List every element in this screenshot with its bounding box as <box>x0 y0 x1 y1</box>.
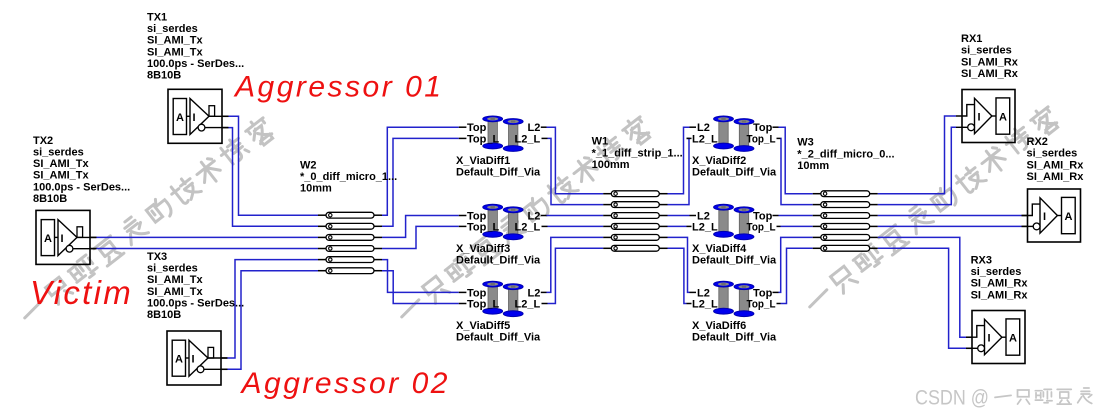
svg-text:TX1: TX1 <box>147 12 167 24</box>
svg-text:Aggressor 02: Aggressor 02 <box>240 367 450 400</box>
svg-text:*_1_diff_strip_1...: *_1_diff_strip_1... <box>592 147 683 159</box>
svg-text:Default_Diff_Via: Default_Diff_Via <box>692 166 777 178</box>
wire X_ViaDiff5 L2_L to W1 line6 <box>548 248 604 303</box>
wire W1 line5 to X_ViaDiff6 L2 <box>668 237 690 292</box>
wire X_ViaDiff6 Top to W3 line5 <box>779 237 813 292</box>
label X_ViaDiff3 value <box>456 243 541 267</box>
svg-text:A: A <box>176 112 184 124</box>
wire W2 line4 to X_ViaDiff3 Top_L <box>382 226 459 248</box>
transmitter TX1 <box>168 89 228 143</box>
label X_ViaDiff5 value <box>456 320 541 344</box>
wire X_ViaDiff1 L2 to W1 line1 <box>547 127 604 194</box>
svg-text:SI_AMI_Rx: SI_AMI_Rx <box>961 68 1019 80</box>
wire W3 line4 to RX2 in- <box>878 225 1028 227</box>
wire W1 line6 to X_ViaDiff6 L2_L <box>668 248 687 303</box>
transmission line W1 conductor 2 <box>603 202 667 208</box>
svg-text:si_serdes: si_serdes <box>961 45 1012 57</box>
svg-text:100mm: 100mm <box>592 159 630 171</box>
label X_ViaDiff2 value <box>692 155 777 179</box>
svg-text:SI_AMI_Tx: SI_AMI_Tx <box>33 170 90 182</box>
wire W2 line2 to X_ViaDiff1 Top_L <box>382 138 459 226</box>
svg-text:100.0ps - SerDes...: 100.0ps - SerDes... <box>147 58 244 70</box>
wire W1 line3 to X_ViaDiff4 L2 <box>668 215 690 217</box>
svg-text:TX2: TX2 <box>33 135 53 147</box>
svg-text:SI_AMI_Rx: SI_AMI_Rx <box>971 278 1029 290</box>
svg-text:Default_Diff_Via: Default_Diff_Via <box>692 332 777 344</box>
transmitter TX2 <box>36 210 96 264</box>
transmission line W1 conductor 1 <box>603 191 667 197</box>
svg-text:8B10B: 8B10B <box>33 193 67 205</box>
label X_ViaDiff1 value <box>456 155 541 179</box>
wire X_ViaDiff2 Top_L to W3 line2 <box>781 138 813 204</box>
svg-text:X_ViaDiff4: X_ViaDiff4 <box>692 243 747 255</box>
transmission line W1 conductor 6 <box>603 245 667 251</box>
svg-text:Top_L: Top_L <box>467 221 499 233</box>
wire X_ViaDiff3 L2_L to W1 line4 <box>548 225 604 227</box>
label RX2 parameters <box>1027 136 1085 183</box>
label W1 parameters <box>592 136 683 171</box>
differential via X_ViaDiff3 <box>459 204 548 239</box>
label TX3 parameters <box>147 251 244 321</box>
svg-text:I: I <box>988 332 991 344</box>
svg-text:*_0_diff_micro_1...: *_0_diff_micro_1... <box>300 171 397 183</box>
label RX3 parameters <box>971 255 1029 302</box>
svg-text:I: I <box>192 354 195 366</box>
label TX2 parameters <box>33 135 130 205</box>
svg-text:100.0ps - SerDes...: 100.0ps - SerDes... <box>147 297 244 309</box>
wire W2 line5 to X_ViaDiff5 Top <box>382 260 459 293</box>
svg-text:Default_Diff_Via: Default_Diff_Via <box>456 332 541 344</box>
wire W3 line1 to RX1 in+ <box>878 116 956 194</box>
transmitter TX3 <box>167 331 227 385</box>
svg-text:A: A <box>44 233 52 245</box>
differential via X_ViaDiff6 <box>687 281 781 316</box>
receiver RX2 <box>1022 189 1081 242</box>
wire X_ViaDiff1 L2_L to W1 line2 <box>548 138 604 204</box>
wire W1 line4 to X_ViaDiff4 L2_L <box>668 225 687 227</box>
svg-text:CSDN @: CSDN @ <box>915 387 989 410</box>
annotation Aggressor 01 <box>233 71 443 104</box>
receiver RX1 <box>956 90 1015 143</box>
svg-text:W3: W3 <box>797 137 814 149</box>
svg-text:I: I <box>61 233 64 245</box>
wire X_ViaDiff5 L2 to W1 line5 <box>547 237 604 292</box>
svg-text:SI_AMI_Rx: SI_AMI_Rx <box>1027 171 1085 183</box>
svg-text:Top_L: Top_L <box>747 299 776 311</box>
svg-text:I: I <box>1043 211 1046 223</box>
transmission line W3 conductor 4 <box>813 224 878 230</box>
transmission line W2 conductor 3 <box>318 235 382 241</box>
svg-text:Top_L: Top_L <box>747 221 776 233</box>
svg-text:8B10B: 8B10B <box>147 70 181 82</box>
svg-text:SI_AMI_Tx: SI_AMI_Tx <box>147 35 204 47</box>
svg-text:RX2: RX2 <box>1027 136 1048 148</box>
transmission line W1 conductor 4 <box>603 224 667 230</box>
receiver RX3 <box>966 311 1025 364</box>
svg-text:Default_Diff_Via: Default_Diff_Via <box>456 254 541 266</box>
transmission line W3 conductor 6 <box>813 245 878 251</box>
svg-text:8B10B: 8B10B <box>147 309 181 321</box>
wire W1 line2 to X_ViaDiff2 L2_L <box>668 138 690 204</box>
transmission line W1 conductor 5 <box>603 235 667 241</box>
svg-text:si_serdes: si_serdes <box>147 263 198 275</box>
wire X_ViaDiff3 L2 to W1 line3 <box>547 215 604 217</box>
transmission line W3 conductor 1 <box>813 191 878 197</box>
transmission line W3 conductor 5 <box>813 235 878 241</box>
svg-text:I: I <box>978 111 981 123</box>
svg-text:L2_L: L2_L <box>515 133 541 145</box>
wire TX3 out- to W2 line6 <box>221 271 318 370</box>
wire X_ViaDiff4 Top_L to W3 line4 <box>781 225 813 227</box>
differential via X_ViaDiff4 <box>687 204 781 239</box>
wire X_ViaDiff4 Top to W3 line3 <box>779 215 813 217</box>
svg-text:TX3: TX3 <box>147 251 167 263</box>
svg-text:X_ViaDiff2: X_ViaDiff2 <box>692 155 746 167</box>
wire X_ViaDiff2 Top to W3 line1 <box>779 127 813 194</box>
svg-text:SI_AMI_Rx: SI_AMI_Rx <box>971 289 1029 301</box>
transmission line W2 conductor 1 <box>318 212 382 218</box>
svg-text:I: I <box>193 112 196 124</box>
label W2 parameters <box>300 159 397 194</box>
svg-text:X_ViaDiff5: X_ViaDiff5 <box>456 320 510 332</box>
svg-text:SI_AMI_Rx: SI_AMI_Rx <box>1027 159 1085 171</box>
svg-text:SI_AMI_Tx: SI_AMI_Tx <box>147 286 204 298</box>
transmission line W2 conductor 6 <box>318 268 382 274</box>
svg-text:A: A <box>1065 211 1073 223</box>
svg-text:Top: Top <box>753 122 773 134</box>
wire W3 line2 to RX1 in- <box>878 127 956 204</box>
transmission line W2 conductor 5 <box>318 257 382 263</box>
svg-text:Top: Top <box>467 122 487 134</box>
wire W3 line3 to RX2 in+ <box>878 215 1028 217</box>
label TX1 parameters <box>147 12 244 82</box>
svg-text:SI_AMI_Tx: SI_AMI_Tx <box>33 158 90 170</box>
label X_ViaDiff4 value <box>692 243 777 267</box>
wire X_ViaDiff6 Top_L to W3 line6 <box>781 248 813 303</box>
svg-text:A: A <box>1009 333 1017 345</box>
transmission line W1 conductor 3 <box>603 213 667 219</box>
svg-text:L2_L: L2_L <box>692 133 718 145</box>
svg-text:SI_AMI_Tx: SI_AMI_Tx <box>147 46 204 58</box>
transmission line W2 conductor 2 <box>318 223 382 229</box>
svg-text:SI_AMI_Rx: SI_AMI_Rx <box>961 56 1019 68</box>
svg-text:Default_Diff_Via: Default_Diff_Via <box>692 254 777 266</box>
wire W2 line6 to X_ViaDiff5 Top_L <box>382 271 459 304</box>
wire W3 line6 to RX3 in- <box>878 248 972 348</box>
svg-text:Default_Diff_Via: Default_Diff_Via <box>456 166 541 178</box>
svg-text:SI_AMI_Tx: SI_AMI_Tx <box>147 274 204 286</box>
wire TX1 out+ to W2 line1 <box>222 116 318 215</box>
svg-text:L2_L: L2_L <box>515 299 541 311</box>
svg-text:Top_L: Top_L <box>467 299 499 311</box>
svg-text:A: A <box>999 112 1007 124</box>
svg-text:10mm: 10mm <box>300 183 332 195</box>
svg-text:Victim: Victim <box>30 274 133 311</box>
svg-text:si_serdes: si_serdes <box>33 147 84 159</box>
svg-text:W1: W1 <box>592 136 609 148</box>
svg-text:si_serdes: si_serdes <box>1027 148 1078 160</box>
svg-text:L2: L2 <box>528 122 541 134</box>
svg-text:RX1: RX1 <box>961 33 982 45</box>
transmission line W2 conductor 4 <box>318 246 382 252</box>
svg-text:10mm: 10mm <box>797 160 829 172</box>
svg-text:Top_L: Top_L <box>467 133 499 145</box>
wire TX2 out- to W2 line4 <box>90 248 318 250</box>
svg-text:L2_L: L2_L <box>515 221 541 233</box>
svg-text:X_ViaDiff6: X_ViaDiff6 <box>692 320 746 332</box>
label W3 parameters <box>797 137 894 172</box>
svg-text:X_ViaDiff3: X_ViaDiff3 <box>456 243 510 255</box>
svg-text:W2: W2 <box>300 159 317 171</box>
svg-text:si_serdes: si_serdes <box>147 23 198 35</box>
svg-text:L2_L: L2_L <box>692 221 718 233</box>
transmission line W3 conductor 2 <box>813 202 878 208</box>
svg-text:100.0ps - SerDes...: 100.0ps - SerDes... <box>33 181 130 193</box>
wire TX2 out+ to W2 line3 <box>90 236 318 238</box>
annotation Aggressor 02 <box>240 367 450 400</box>
svg-text:RX3: RX3 <box>971 255 992 267</box>
wire W3 line5 to RX3 in+ <box>878 237 972 337</box>
transmission line W3 conductor 3 <box>813 213 878 219</box>
wire TX1 out- to W2 line2 <box>222 128 318 227</box>
annotation Victim <box>30 274 133 311</box>
wire W1 line1 to X_ViaDiff2 L2 <box>668 127 690 194</box>
svg-text:Aggressor 01: Aggressor 01 <box>233 71 443 104</box>
svg-text:L2: L2 <box>697 122 710 134</box>
wire W2 line1 to X_ViaDiff1 Top <box>382 127 459 215</box>
label RX1 parameters <box>961 33 1019 80</box>
differential via X_ViaDiff1 <box>459 116 548 151</box>
label X_ViaDiff6 value <box>692 320 777 344</box>
wire TX3 out+ to W2 line5 <box>221 260 318 358</box>
svg-text:L2_L: L2_L <box>692 299 718 311</box>
svg-text:*_2_diff_micro_0...: *_2_diff_micro_0... <box>797 148 894 160</box>
differential via X_ViaDiff5 <box>459 281 548 316</box>
wire W2 line3 to X_ViaDiff3 Top <box>382 216 459 238</box>
svg-text:X_ViaDiff1: X_ViaDiff1 <box>456 155 510 167</box>
svg-text:si_serdes: si_serdes <box>971 266 1022 278</box>
svg-text:Top_L: Top_L <box>747 133 776 145</box>
differential via X_ViaDiff2 <box>687 116 781 151</box>
svg-text:A: A <box>175 354 183 366</box>
